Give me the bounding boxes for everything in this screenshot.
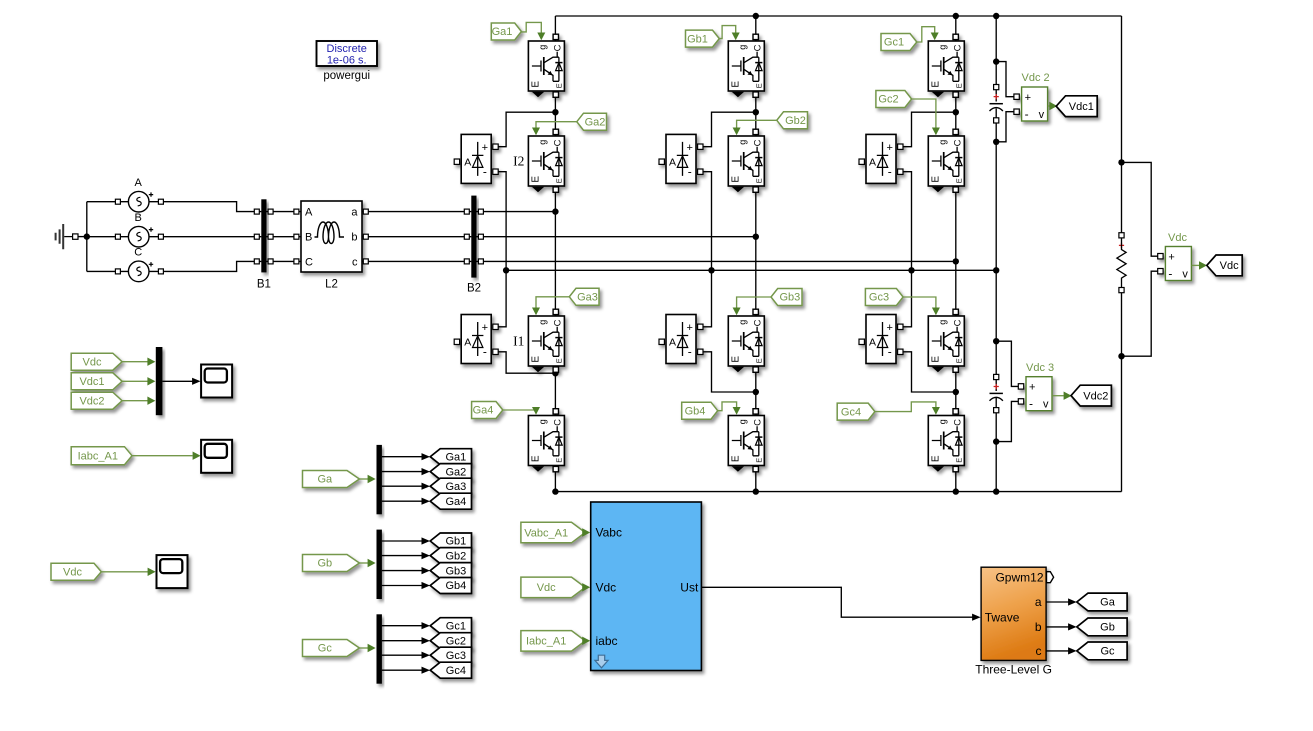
IGBT block C3 <box>928 309 964 372</box>
wire Iabc_A1 to controller <box>584 640 586 642</box>
from tag Gb1 <box>686 30 720 47</box>
wire B1 to L2 <box>266 211 301 213</box>
goto tag Gc3 <box>430 647 471 663</box>
wire source A to B1 <box>149 202 262 212</box>
controller subsystem block (blue) <box>591 502 702 671</box>
svg-text:Gpwm12: Gpwm12 <box>995 571 1043 585</box>
wire output Gc <box>1046 650 1069 652</box>
subsystem link arrow icon <box>595 655 608 668</box>
voltage measurement Vdc 3 <box>1018 377 1052 411</box>
svg-text:Gc2: Gc2 <box>446 635 466 647</box>
wire neutral to source C <box>87 270 129 272</box>
wire mux to scope <box>162 380 192 382</box>
powergui block <box>317 41 378 66</box>
node leg A upper clamp junction <box>552 109 558 115</box>
wire leg C top rail to IGBT1 collector <box>955 16 957 41</box>
svg-text:Vabc_A1: Vabc_A1 <box>524 527 568 539</box>
wire capacitor chain vertical <box>995 16 997 85</box>
clamp diode lower DA2 <box>454 315 498 364</box>
from tag Gb4 <box>682 402 718 419</box>
svg-text:C: C <box>305 256 313 268</box>
wire DC2 cathode to lower junction <box>903 352 956 392</box>
svg-text:Vdc: Vdc <box>537 582 556 594</box>
wire Gc to demux <box>359 647 368 649</box>
svg-text:Vdc: Vdc <box>1220 260 1239 272</box>
svg-text:c: c <box>1036 644 1042 658</box>
demux Ga <box>377 445 382 514</box>
node leg B upper clamp junction <box>753 109 759 115</box>
svg-text:Gb: Gb <box>317 558 332 570</box>
wire Ga1 to gate <box>521 22 541 33</box>
wire Gb3 to gate <box>737 297 771 309</box>
goto tag Gb2 <box>430 548 471 564</box>
wire Vdc to mux <box>122 361 148 363</box>
wire demux out Gb1 <box>382 540 423 542</box>
svg-text:Gc4: Gc4 <box>446 665 466 677</box>
from tag Gc <box>303 640 360 657</box>
svg-text:Ga2: Ga2 <box>446 466 467 478</box>
wire Vdc3 output <box>1052 395 1064 397</box>
wire phase b from B2 to leg B midpoint <box>476 236 755 238</box>
IGBT block B4 <box>728 409 764 472</box>
clamp diode lower DB2 <box>659 315 703 364</box>
from tag Gc3 <box>865 289 903 306</box>
wire Gb2 to gate <box>737 120 777 128</box>
wire DC1 cathode to DC2 anode (neutral) <box>903 172 911 327</box>
svg-text:Gc: Gc <box>1100 646 1115 658</box>
IGBT block A4 <box>528 409 564 472</box>
wire Iabc_A1 to scope <box>132 455 193 457</box>
wire DB1 anode to upper junction <box>703 112 756 147</box>
node leg B bottom rail junction <box>753 488 759 494</box>
svg-text:L2: L2 <box>325 279 338 291</box>
wire capacitor bottom to Vdc3 - <box>996 401 1018 441</box>
svg-text:Vabc: Vabc <box>596 526 622 540</box>
wire leg C IGBT3 emitter to IGBT4 collector <box>955 366 957 416</box>
wire demux out Ga1 <box>382 456 423 458</box>
wire leg B IGBT3 emitter to IGBT4 collector <box>755 366 757 416</box>
wire capacitor top to Vdc2 + <box>996 62 1014 97</box>
from tag Vdc (scope input) <box>71 353 122 370</box>
IGBT block B1 <box>728 34 764 97</box>
AC voltage source C <box>128 261 153 282</box>
node leg C lower clamp junction <box>953 389 959 395</box>
svg-text:Gb: Gb <box>1100 622 1115 634</box>
svg-text:powergui: powergui <box>323 70 370 82</box>
from tag Gc4 <box>837 403 875 420</box>
svg-text:b: b <box>351 232 357 244</box>
node leg C phase output junction <box>953 258 959 264</box>
svg-text:Vdc 2: Vdc 2 <box>1022 72 1050 84</box>
IGBT block C4 <box>928 409 964 472</box>
wire phase c from B2 to leg C midpoint <box>476 260 955 262</box>
wire neutral to source B <box>87 236 129 238</box>
Three-Level G generator block (orange) <box>981 567 1046 660</box>
wire leg B IGBT2 emitter to IGBT3 collector <box>755 186 757 316</box>
IGBT block A3 (I1) <box>528 309 564 372</box>
node leg C neutral tap <box>908 267 914 273</box>
wire demux out Gc4 <box>382 669 423 671</box>
svg-text:Vdc: Vdc <box>1168 232 1187 244</box>
svg-text:Gc: Gc <box>318 643 333 655</box>
from tag Iabc_A1 (scope input) <box>71 447 132 465</box>
wire Gc2 to gate <box>912 99 936 129</box>
svg-text:Ust: Ust <box>680 580 699 594</box>
wire L2 to B2 <box>362 236 471 238</box>
wire DC- bottom rail <box>555 491 1121 493</box>
wire resistor bottom to Vdc - <box>1122 271 1158 356</box>
svg-text:Three-Level G: Three-Level G <box>975 663 1052 677</box>
wire Vdc1 to mux <box>122 380 148 382</box>
goto tag Gb <box>1077 618 1127 636</box>
from tag Ga2 <box>577 113 607 130</box>
wire leg C IGBT4 emitter to bottom rail <box>955 466 957 492</box>
node resistor top branch <box>1118 159 1124 165</box>
IGBT block A1 <box>528 34 564 97</box>
goto tag Gc1 <box>430 618 471 634</box>
node leg B phase output junction <box>753 234 759 240</box>
clamp diode lower DC2 <box>859 315 903 364</box>
node leg C bottom rail junction <box>953 488 959 494</box>
wire ground to neutral junction <box>78 236 87 238</box>
wire resistor top to Vdc + <box>1122 162 1158 256</box>
svg-text:Gb3: Gb3 <box>446 565 467 577</box>
wire right rail bottom segment <box>1121 290 1123 492</box>
from tag Vdc (bottom scope input) <box>51 563 101 580</box>
svg-text:Vdc 3: Vdc 3 <box>1026 362 1054 374</box>
svg-text:Gb3: Gb3 <box>780 292 801 304</box>
svg-text:Iabc_A1: Iabc_A1 <box>78 450 118 462</box>
svg-text:B2: B2 <box>467 283 481 295</box>
from tag Gc1 <box>881 34 917 51</box>
from tag Gb3 <box>771 289 802 306</box>
wire Vdc2 to mux <box>122 400 148 402</box>
node leg B neutral tap <box>708 267 714 273</box>
scope Iabc <box>201 440 232 473</box>
goto tag Gc2 <box>430 633 471 649</box>
wire demux out Gb4 <box>382 585 423 587</box>
wire demux out Ga4 <box>382 500 423 502</box>
from tag Ga3 <box>569 288 599 305</box>
wire source B to B1 <box>149 236 262 238</box>
wire capacitor chain lower <box>995 341 997 374</box>
svg-text:Gc3: Gc3 <box>446 650 466 662</box>
svg-text:Ga1: Ga1 <box>446 451 467 463</box>
scope Vdc signals <box>201 365 232 398</box>
node leg C upper clamp junction <box>953 109 959 115</box>
goto tag Gb3 <box>430 563 471 579</box>
scope Vdc <box>157 555 188 588</box>
wire Vdc2 output <box>1048 105 1050 107</box>
node leg A phase output junction <box>552 208 558 214</box>
demux Gb <box>377 530 382 599</box>
wire Gb1 to gate <box>719 26 735 39</box>
from tag Ga4 <box>472 402 503 419</box>
wire B1 to L2 <box>266 236 301 238</box>
from tag Vabc_A1 (controller input) <box>521 522 585 543</box>
wire DC+ top rail <box>555 15 1121 17</box>
svg-text:c: c <box>352 256 358 268</box>
wire L2 to B2 <box>362 211 471 213</box>
svg-text:Ga3: Ga3 <box>446 481 467 493</box>
wire leg A IGBT1 emitter to IGBT2 collector <box>554 91 556 136</box>
wire leg B IGBT4 emitter to bottom rail <box>755 466 757 492</box>
wire Vdc to scope <box>101 571 148 573</box>
wire DA1 cathode to DA2 anode (neutral) <box>498 172 506 327</box>
wire demux out Gb3 <box>382 570 423 572</box>
svg-text:Vdc: Vdc <box>63 567 82 579</box>
wire source C to B1 <box>149 261 262 271</box>
node leg A bottom rail junction <box>552 488 558 494</box>
svg-text:Vdc: Vdc <box>596 580 617 594</box>
wire Vdc output <box>1192 264 1199 266</box>
from tag Vdc (controller input) <box>521 577 585 598</box>
wire Ga2 to gate <box>536 122 577 129</box>
wire output Gb <box>1046 626 1069 628</box>
wire leg A top rail to IGBT1 collector <box>554 16 556 41</box>
IGBT block A2 (I2) <box>528 129 564 192</box>
svg-text:Vdc: Vdc <box>83 356 102 368</box>
voltage measurement Vdc <box>1158 247 1192 281</box>
wire leg A IGBT3 emitter to IGBT4 collector <box>554 366 556 416</box>
IGBT block C2 <box>928 129 964 192</box>
wire DC1 anode to upper junction <box>903 112 956 147</box>
svg-text:Ga: Ga <box>317 474 333 486</box>
from tag Iabc_A1 (controller input) <box>521 631 585 652</box>
goto tag Vdc1 <box>1056 96 1097 117</box>
goto tag Vdc <box>1207 255 1242 276</box>
goto tag Gb1 <box>430 533 471 549</box>
svg-text:b: b <box>1035 620 1042 634</box>
wire leg B IGBT1 emitter to IGBT2 collector <box>755 91 757 136</box>
svg-text:Gc2: Gc2 <box>878 94 898 106</box>
svg-text:A: A <box>135 177 143 189</box>
three-phase measurement bus B2 <box>471 196 476 278</box>
node top rail capacitor branch <box>993 13 999 19</box>
svg-text:1e-06 s.: 1e-06 s. <box>327 54 367 66</box>
goto tag Ga1 <box>430 449 471 465</box>
wire Ga3 to gate <box>536 297 569 309</box>
wire leg C IGBT2 emitter to IGBT3 collector <box>955 186 957 316</box>
svg-text:B1: B1 <box>257 279 271 291</box>
wire Ga to demux <box>359 478 368 480</box>
from tag Gb <box>303 555 360 572</box>
from tag Ga1 <box>491 23 521 40</box>
wire Gb to demux <box>359 562 368 564</box>
wire capacitor mid to Vdc3 + <box>996 341 1018 386</box>
mux Vdc signals <box>156 347 163 415</box>
ground symbol <box>56 224 64 249</box>
wire demux out Gb2 <box>382 555 423 557</box>
wire leg A IGBT2 emitter to IGBT3 collector <box>554 186 556 316</box>
svg-text:Vdc1: Vdc1 <box>1069 101 1094 113</box>
svg-text:Ga1: Ga1 <box>492 26 513 38</box>
svg-text:Gb1: Gb1 <box>687 33 708 45</box>
svg-text:Vdc1: Vdc1 <box>79 376 104 388</box>
IGBT block B3 <box>728 309 764 372</box>
AC voltage source B <box>128 226 153 247</box>
wire B1 to L2 <box>266 260 301 262</box>
wire demux out Gc2 <box>382 640 423 642</box>
node capacitor mid branch 1 <box>993 139 999 145</box>
clamp diode upper DB1 <box>659 134 703 183</box>
node leg A neutral tap <box>503 267 509 273</box>
svg-text:A: A <box>305 207 313 219</box>
resistor R load <box>1119 233 1124 238</box>
svg-text:Ga2: Ga2 <box>585 116 606 128</box>
svg-text:iabc: iabc <box>596 634 618 648</box>
goto tag Ga3 <box>430 478 471 494</box>
svg-text:Gc4: Gc4 <box>841 406 861 418</box>
svg-text:I1: I1 <box>513 334 524 349</box>
svg-text:Vdc2: Vdc2 <box>79 395 104 407</box>
IGBT block C1 <box>928 34 964 97</box>
svg-text:Gb4: Gb4 <box>685 405 706 417</box>
goto tag Ga <box>1077 593 1127 611</box>
wire DB2 cathode to lower junction <box>703 352 756 392</box>
wire leg B top rail to IGBT1 collector <box>755 16 757 41</box>
svg-text:Vdc2: Vdc2 <box>1083 390 1108 402</box>
wire Gc1 to gate <box>917 27 935 42</box>
svg-text:Ga3: Ga3 <box>577 292 598 304</box>
node capacitor bottom branch <box>993 438 999 444</box>
svg-text:Gb2: Gb2 <box>785 115 806 127</box>
goto tag Gc4 <box>430 662 471 678</box>
node bottom rail capacitor branch <box>993 488 999 494</box>
from tag Ga <box>303 471 360 488</box>
wire neutral to source A <box>87 201 129 203</box>
svg-text:Gb2: Gb2 <box>446 550 467 562</box>
svg-text:Ga: Ga <box>1100 597 1116 609</box>
goto tag Gc <box>1077 642 1127 660</box>
node leg B top rail junction <box>753 13 759 19</box>
svg-text:Ga4: Ga4 <box>473 405 494 417</box>
capacitor C1 <box>994 85 999 90</box>
wire right rail top segment <box>1121 16 1123 235</box>
three-phase inductor block L2 <box>301 201 362 272</box>
wire L2 to B2 <box>362 260 471 262</box>
node resistor bottom branch <box>1118 353 1124 359</box>
wire capacitor mid to Vdc2 - <box>996 112 1014 142</box>
demux Gc <box>377 614 382 683</box>
node capacitor top branch <box>993 58 999 64</box>
svg-text:Gb4: Gb4 <box>446 580 467 592</box>
svg-text:Gb1: Gb1 <box>446 536 467 548</box>
clamp diode upper DA1 <box>454 134 498 183</box>
svg-text:C: C <box>134 247 142 259</box>
svg-text:Ga4: Ga4 <box>446 496 467 508</box>
svg-text:Gc1: Gc1 <box>884 37 904 49</box>
wire leg C IGBT1 emitter to IGBT2 collector <box>955 91 957 136</box>
node leg C top rail junction <box>953 13 959 19</box>
wire Ga4 to gate <box>503 408 536 410</box>
wire Gb4 to gate <box>718 402 737 411</box>
wire Vabc_A1 to controller <box>584 532 586 534</box>
svg-text:a: a <box>351 207 358 219</box>
svg-text:I2: I2 <box>513 154 524 169</box>
node source neutral junction <box>84 233 90 239</box>
wire Gc3 to gate <box>903 297 936 309</box>
IGBT block B2 <box>728 129 764 192</box>
node capacitor mid branch 2 <box>993 338 999 344</box>
AC voltage source A <box>128 191 153 212</box>
from tag Gc2 <box>876 91 912 108</box>
goto tag Ga4 <box>430 493 471 509</box>
wire neutral rail <box>506 269 996 271</box>
svg-text:Discrete: Discrete <box>327 43 367 55</box>
wire leg A IGBT4 emitter to bottom rail <box>554 466 556 492</box>
from tag Vdc1 (scope input) <box>71 373 122 390</box>
svg-text:a: a <box>1035 595 1042 609</box>
svg-text:Twave: Twave <box>985 611 1020 625</box>
svg-text:Gc3: Gc3 <box>869 292 889 304</box>
wire demux out Gc3 <box>382 654 423 656</box>
wire output Ga <box>1046 601 1069 603</box>
capacitor C2 <box>994 374 999 379</box>
wire DB1 cathode to DB2 anode (neutral) <box>703 172 711 327</box>
wire demux out Ga3 <box>382 485 423 487</box>
node leg B lower clamp junction <box>753 389 759 395</box>
voltage measurement Vdc 2 <box>1014 87 1048 121</box>
goto tag Vdc2 <box>1071 385 1111 406</box>
three-phase measurement bus B1 <box>261 199 266 272</box>
wire Vdc to controller <box>584 586 586 588</box>
goto tag Gb4 <box>430 578 471 594</box>
output port Gpwm12 <box>1047 572 1054 583</box>
goto tag Ga2 <box>430 464 471 480</box>
svg-text:Gc1: Gc1 <box>446 620 466 632</box>
wire DA1 anode to upper junction <box>498 112 555 147</box>
wire phase a from B2 to leg A midpoint <box>476 211 555 213</box>
clamp diode upper DC1 <box>859 134 903 183</box>
svg-text:Iabc_A1: Iabc_A1 <box>526 636 566 648</box>
node leg A lower clamp junction <box>552 370 558 376</box>
wire DA2 cathode to lower junction <box>498 352 555 373</box>
wire Gc4 to gate <box>875 402 936 412</box>
node neutral to capacitor midpoint <box>993 267 999 273</box>
svg-text:B: B <box>135 212 142 224</box>
svg-text:B: B <box>305 232 312 244</box>
from tag Vdc2 (scope input) <box>71 392 122 409</box>
wire demux out Gc1 <box>382 625 423 627</box>
wire demux out Ga2 <box>382 471 423 473</box>
wire Ust to Twave <box>702 587 973 617</box>
wire source neutral vertical <box>86 202 88 272</box>
from tag Gb2 <box>777 112 808 129</box>
